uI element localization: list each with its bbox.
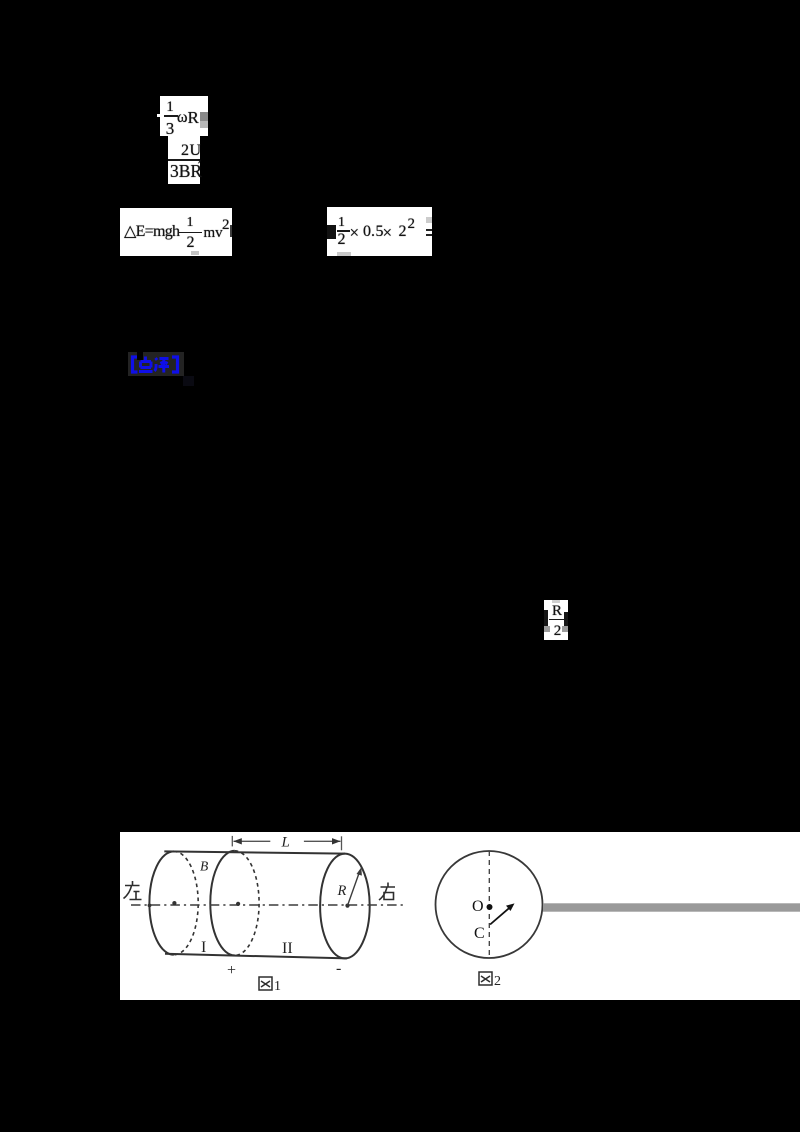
- zuo / you CJK approx: [124, 881, 396, 900]
- gray bar: [543, 903, 800, 911]
- blue annotation 【点评】: [128, 352, 184, 376]
- svg-text:II: II: [282, 940, 293, 957]
- svg-text:C: C: [474, 925, 485, 942]
- tu2 caption: [479, 972, 492, 985]
- svg-text:-: -: [336, 960, 341, 977]
- cylinder body top/bottom: [164, 851, 345, 853]
- svg-text:B: B: [200, 859, 208, 874]
- svg-text:R: R: [337, 883, 347, 899]
- dimension L: [232, 836, 341, 850]
- formula image: (1/3)wR: [160, 96, 208, 136]
- svg-text:2: 2: [494, 974, 501, 989]
- tu1 caption: [259, 977, 272, 990]
- left ellipse: [149, 851, 173, 954]
- figure area: [120, 832, 800, 1000]
- formula image: 2U/3BR: [168, 136, 200, 184]
- svg-text:L: L: [281, 835, 290, 851]
- svg-text:I: I: [201, 939, 206, 956]
- middle ellipse: [210, 851, 234, 956]
- svg-text:1: 1: [274, 979, 281, 994]
- circle figure: [436, 851, 543, 958]
- formula image: dE=mgh-1/2mv2: [120, 208, 232, 256]
- formula image: R/2: [544, 600, 568, 640]
- right ellipse: [320, 854, 370, 959]
- center dots: [148, 904, 152, 908]
- svg-text:+: +: [227, 962, 236, 979]
- formula image: 1/2 x 0.5 x 2^2 =: [327, 207, 432, 256]
- R radius arrow: [348, 871, 361, 906]
- axis dash-dot: [131, 904, 403, 906]
- svg-text:O: O: [472, 898, 484, 915]
